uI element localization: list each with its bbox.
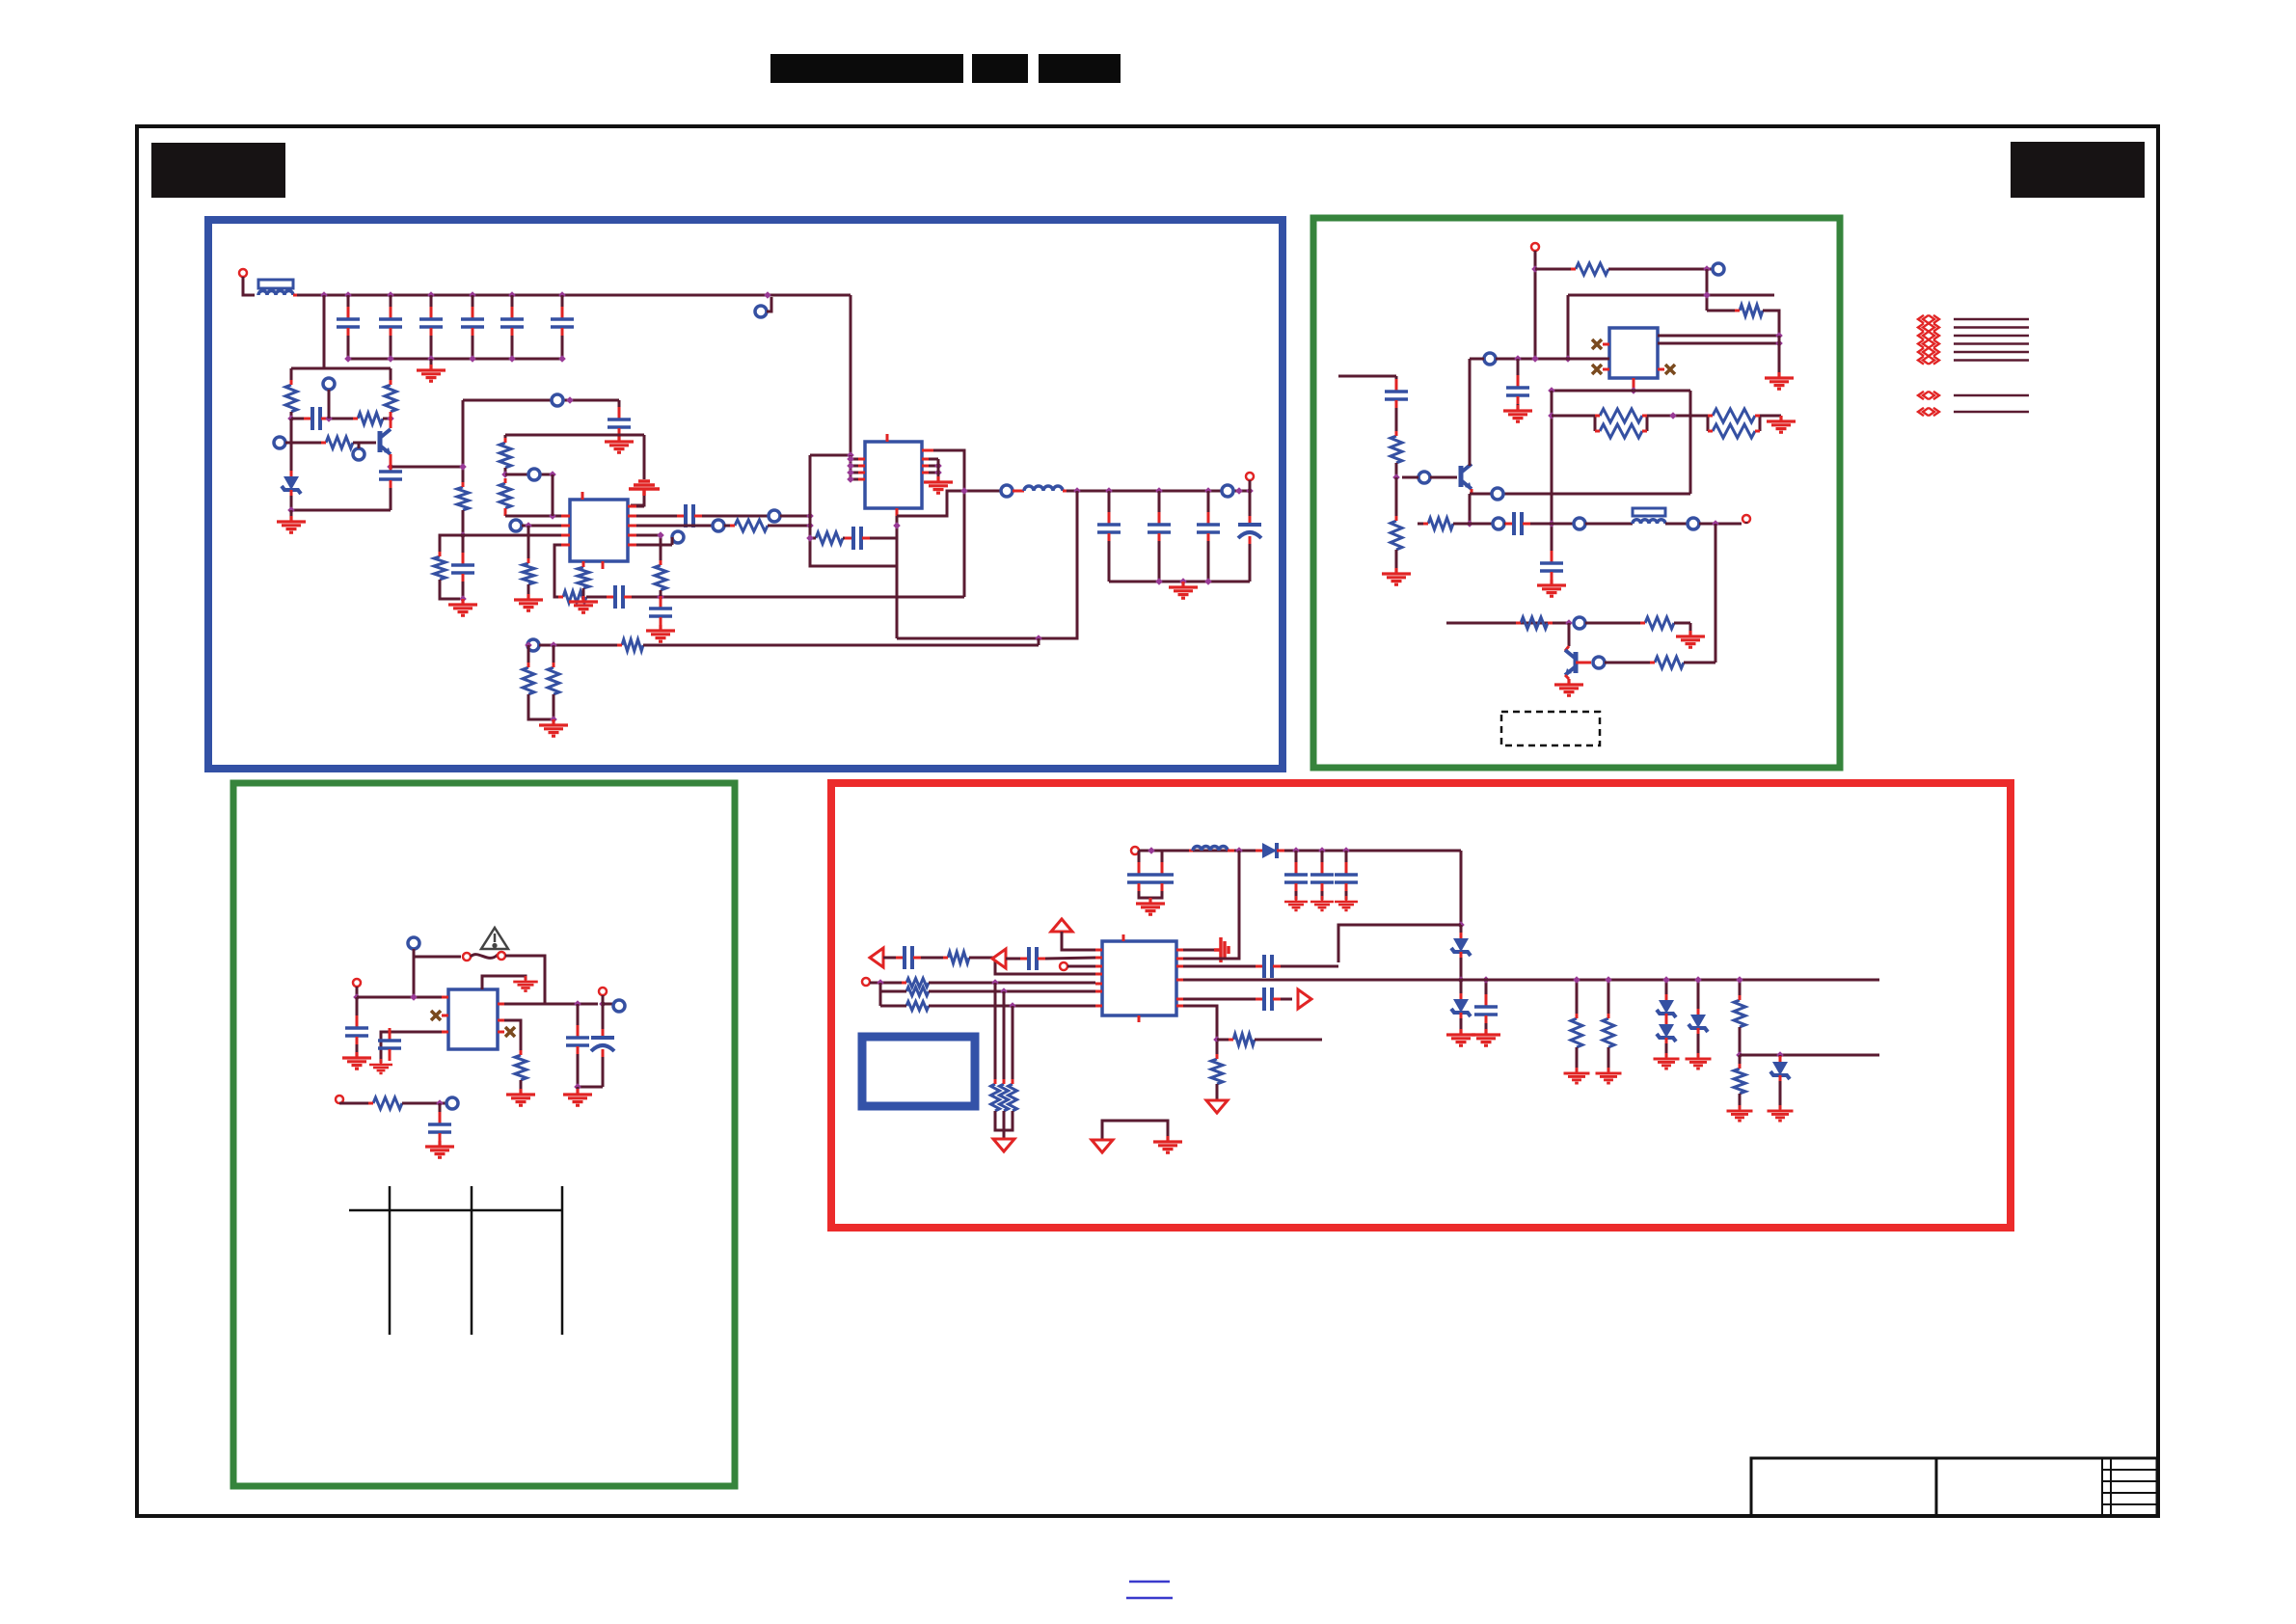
bus net wire 6 [1954, 359, 2029, 362]
resistor R30 [1645, 617, 1674, 629]
wire C34 to riser [1281, 965, 1338, 968]
wire C26 C27 tie [578, 1086, 603, 1089]
node G1f [1775, 339, 1783, 347]
capacitor C36 [896, 957, 904, 960]
capacitor C34 [1256, 965, 1263, 968]
node rail junction 6 [508, 291, 516, 299]
capacitor C37 [1020, 958, 1028, 961]
wire C14 to U2 riser [870, 537, 897, 540]
terminal TP3 [274, 437, 285, 448]
ground GND7 [569, 596, 598, 612]
node rail junction 4 [427, 291, 435, 299]
wire J7 to R33 [339, 1102, 373, 1105]
resistor R3 [385, 385, 396, 412]
node FB1a [657, 593, 664, 601]
wire R42 to PF6 [1216, 1084, 1219, 1099]
zener diode D3 [1453, 938, 1469, 952]
node top rail x1194 [1148, 847, 1155, 854]
node RB2 [1457, 976, 1465, 984]
resistor R36 [906, 988, 929, 996]
fuse F2 body [1633, 508, 1665, 516]
inductor L4 [1193, 847, 1228, 852]
node rail junction 5 [469, 291, 476, 299]
resistor R40 [1009, 1084, 1017, 1111]
ground GND3 [448, 599, 477, 615]
Q4 emitter stub [1565, 675, 1569, 679]
wire Q1E right [391, 466, 463, 469]
wire TP8 to loop [780, 515, 810, 518]
fuse F3 (wire link) [471, 955, 498, 959]
resistor R44 [1603, 1018, 1614, 1047]
warning triangle symbol [481, 928, 508, 949]
wire R43 top lead [1576, 980, 1579, 1018]
resistor R13 [735, 520, 768, 531]
resistor R32 [515, 1055, 527, 1080]
wire L3 right [1665, 523, 1688, 526]
ground GND17 [1676, 631, 1705, 647]
wire feedback FB1 [632, 596, 964, 599]
terminal TP2 [323, 378, 335, 390]
terminal TP11 [1001, 485, 1013, 497]
wire bias top [291, 367, 391, 370]
wire C12 to GND8 [660, 625, 662, 629]
inductor L1 [258, 291, 293, 296]
U5 top pin stub [1122, 934, 1125, 941]
ground GND34 [1596, 1068, 1622, 1083]
resistor R20 [1576, 263, 1608, 275]
resistor R24 [1600, 409, 1642, 422]
wire C4 top lead [472, 295, 474, 314]
U4 left pin 2 stub [442, 1015, 448, 1017]
U4 right pin 2 stub [498, 1019, 504, 1022]
resistor R38 [991, 1084, 1000, 1111]
wire J6 stub [602, 995, 605, 1004]
resistor R23 [1391, 521, 1402, 550]
resistor R6 [434, 556, 446, 580]
U5 left pin stub y1020 [1095, 983, 1102, 986]
capacitor C21 [1395, 379, 1398, 391]
ground GND10 [1169, 582, 1198, 598]
zener diode D6 [1659, 1024, 1674, 1038]
wire C16 top lead [1158, 491, 1161, 521]
zener diode D4 [1453, 999, 1469, 1013]
wire output sense return [897, 491, 1077, 638]
wire C31 top lead [1295, 851, 1298, 871]
resistor R33 [373, 1097, 402, 1109]
U3 bottom pin stub [1633, 378, 1635, 391]
title block divider 1 [1935, 1458, 1938, 1516]
node top rail x1285 [1235, 847, 1243, 854]
ground GND11 [539, 719, 568, 736]
wire R38 R40 bottom tie [995, 1111, 1013, 1130]
wire C10 to GND4 [618, 436, 621, 440]
title block outline [1751, 1458, 2157, 1516]
wire D6 to GND35 [1665, 1043, 1668, 1057]
capacitor C5 [511, 307, 514, 318]
capacitor C32 [1321, 862, 1324, 874]
wire R44 top lead [1607, 980, 1610, 1018]
capacitor C15 [1108, 512, 1111, 524]
capacitor C22 [1551, 551, 1553, 562]
wire D7 top lead [1697, 980, 1700, 1015]
wire U2 output [897, 491, 1001, 516]
Q3 emitter stub [1471, 489, 1473, 494]
resistor R27 [1713, 424, 1755, 438]
wire C3 top lead [430, 295, 433, 314]
wire TP15 to U3 [1496, 358, 1609, 361]
wire C1 top lead [347, 295, 350, 314]
transistor Q1 [380, 429, 391, 454]
wire TP9 to R13 [724, 525, 735, 528]
U5 left pin stub y1002 [1095, 965, 1102, 968]
wire R16 top lead [527, 651, 530, 667]
wire U3 out row b [1658, 342, 1779, 345]
wire C2 top lead [390, 295, 392, 314]
wire FB2b down [527, 645, 530, 652]
wire TP3 to R4 [285, 442, 326, 445]
node output rail x1285 [1235, 487, 1243, 495]
wire R43 bottom lead [1576, 1047, 1579, 1071]
ground GND31 (rotated) [1214, 937, 1229, 962]
wire RB9 down [1739, 1055, 1742, 1069]
terminal J10 [862, 978, 870, 986]
wire J3 down [1534, 251, 1537, 359]
L4 left stub [1189, 850, 1193, 853]
wire G1 left entry [1338, 375, 1396, 378]
capacitor C14 [845, 537, 852, 540]
ic U1 (PWM controller) [570, 500, 628, 561]
wire PF2 to C36 [883, 957, 901, 960]
no-connect X4 [431, 1011, 441, 1020]
resistor R42 [1211, 1059, 1223, 1084]
section box green (regulator top right) [1313, 218, 1840, 768]
wire rail tap down [323, 295, 326, 368]
U2 right pin stub y467 [922, 449, 935, 452]
node A2 [325, 415, 333, 422]
U2 right pin stub y476 [922, 458, 929, 461]
resistor pair R26/R27 loop [1707, 416, 1710, 431]
capacitor C11 [607, 596, 614, 599]
inductor L2 [1024, 486, 1063, 491]
wire C35 to GND30 [1485, 1023, 1488, 1033]
inductor L3 [1633, 520, 1665, 524]
wire U2 left pin y483 [851, 465, 865, 468]
U5 right pin stub y1036 [1176, 998, 1183, 1001]
zener diode D1 [284, 476, 299, 490]
node G1a [1531, 265, 1539, 273]
wire C2 bottom lead [390, 336, 392, 359]
node cap rail junction 1 [344, 355, 352, 363]
U5 right pin stub y1043 [1176, 1005, 1183, 1008]
wire top tie row [463, 399, 619, 402]
ground GND4 [605, 436, 634, 452]
node output rail x1202 [1155, 487, 1163, 495]
wire to C20 [1517, 359, 1520, 384]
wire V2 top row [505, 434, 644, 437]
wire TP10 stub [671, 537, 674, 545]
wire to U1 pin1 [505, 515, 561, 518]
wire Q3 emitter row [1470, 493, 1690, 496]
ground GND24 [425, 1141, 454, 1157]
wire C38 to PF5 [1281, 998, 1292, 1001]
node cap rail junction 4 [469, 355, 476, 363]
ground GND9 [924, 476, 953, 493]
node loop d [806, 534, 814, 542]
wire RB9 bus2 [1740, 1054, 1879, 1057]
ground GND30 [1472, 1029, 1500, 1045]
node sense tap [1035, 635, 1042, 642]
fuse F1 body [258, 280, 293, 288]
U5 right pin stub y985 [1176, 949, 1183, 952]
wire Q4 collector lead [1568, 623, 1571, 646]
resistor R7 [500, 443, 511, 468]
wire rail to U2 pins [850, 455, 852, 479]
node G1m [1548, 520, 1555, 528]
terminal TP19 [1574, 518, 1585, 529]
capacitor C20 [1517, 375, 1520, 387]
capacitor C31 [1295, 862, 1298, 874]
wire bus to D4 [1460, 980, 1463, 999]
no-connect X2 [1592, 365, 1602, 374]
wire to GND12 [1778, 336, 1781, 376]
wire R44 bottom lead [1607, 1047, 1610, 1071]
wire J5 row [357, 996, 448, 999]
bus connector arrow 5 [1918, 348, 1939, 356]
wire TP4 stub [358, 444, 361, 448]
resistor R26 [1713, 409, 1755, 422]
wire emitter riser [1689, 391, 1692, 494]
terminal TP17 [1492, 488, 1503, 500]
footer link underline 1 [1129, 1581, 1170, 1583]
wire pair2 out [1760, 415, 1781, 418]
node bias gnd [287, 506, 295, 514]
resistor R14 [816, 532, 843, 544]
resistor R46 [1734, 1069, 1745, 1094]
wire D5 to D6 [1665, 1019, 1668, 1024]
wire U2 loop left [810, 455, 897, 566]
node loop b [806, 522, 814, 529]
ground GND22 [506, 1089, 535, 1105]
wire TP21 to R30 [1585, 622, 1645, 625]
wire C17 top lead [1207, 491, 1210, 521]
ground GND35 [1654, 1053, 1680, 1069]
wire TP7 to U1 [522, 525, 561, 528]
wire R17 top lead [553, 645, 555, 667]
terminal TP23 [408, 937, 419, 949]
node V2a [501, 471, 509, 478]
U2 bottom pin stub [896, 508, 899, 516]
bus connector arrow 8 [1918, 408, 1939, 416]
wire C6 bottom lead [561, 336, 564, 359]
wire U2 gnd riser [937, 459, 940, 480]
wire R1 top lead [290, 368, 293, 385]
wire TP1 to rail [767, 297, 771, 311]
Q4 collector stub [1565, 646, 1569, 651]
wire C28 top lead [439, 1103, 442, 1121]
black label box top-left [151, 143, 285, 198]
ground GND8 [646, 625, 675, 641]
U4 right pin 1 stub [498, 1003, 504, 1006]
U5 right pin stub y1002 [1176, 965, 1183, 968]
node cap rail junction 2 [387, 355, 394, 363]
wire G1j down [1395, 477, 1398, 521]
node RB8 [1213, 1036, 1221, 1043]
wire R2 to R3 bottom [383, 418, 391, 420]
ground GND18 [1554, 679, 1583, 695]
wire R41 right [1255, 1039, 1322, 1042]
wire TP16 to Q3 base [1430, 476, 1457, 479]
resistor R29 [1521, 617, 1548, 629]
U5 right pin stub y1016 [1176, 979, 1183, 982]
U1 left pin y555 [561, 534, 570, 537]
wire C18 bottom lead [1249, 544, 1252, 582]
node V2c [549, 471, 556, 478]
wire R10 to C11 [586, 596, 611, 599]
wire to GND10 [1182, 582, 1185, 585]
U1 bottom pin 2 [602, 561, 605, 569]
wire C35 top lead [1485, 980, 1488, 1003]
terminal TP15 [1484, 353, 1496, 365]
resistor R17 [548, 667, 559, 694]
capacitor C38 [1256, 998, 1263, 1001]
wire C15 top lead [1108, 491, 1111, 521]
wire U4 pin to R32 [504, 1020, 521, 1055]
node B [387, 415, 394, 422]
wire C8 to bias bottom [390, 488, 392, 510]
resistor R34 [948, 952, 969, 963]
L4 right stub [1228, 850, 1234, 853]
capacitor C7 [304, 418, 311, 420]
bus net wire 7 [1954, 394, 2029, 397]
node cap rail junction 5 [508, 355, 516, 363]
U5 left pin stub y993 [1095, 957, 1102, 960]
wire RB1 to U5 [1338, 925, 1461, 962]
wire C18 top lead [1249, 491, 1252, 521]
ground GND21 [513, 976, 538, 991]
wire C9 down [462, 582, 465, 599]
U5 bottom pin stub [1138, 1015, 1141, 1022]
node RB5 [991, 979, 999, 987]
section box blue (power input) [208, 220, 1283, 769]
wire C29 top lead [1138, 851, 1141, 871]
terminal TP24 [613, 1000, 625, 1012]
wire V2 top lead [504, 435, 507, 443]
wire node A down [290, 419, 293, 476]
ground GND14 [1382, 568, 1411, 584]
zener diode D8 [1772, 1062, 1788, 1075]
node output rail x1117 [1073, 487, 1081, 495]
U1 left pin y535 [561, 515, 570, 518]
node U2 gnd a [934, 462, 942, 470]
wire V2a right [505, 474, 553, 476]
title block divider 3 [2110, 1458, 2112, 1516]
node top rail x1371 [1318, 847, 1326, 854]
node G1d [1564, 355, 1572, 363]
node RB3 [1482, 976, 1490, 984]
terminal TP16 [1418, 472, 1430, 483]
wire R7 to node V2a [504, 468, 507, 474]
wire TP19 to L3 [1585, 523, 1633, 526]
wire D7 to GND36 [1697, 1034, 1700, 1057]
wire C28 to GND24 [439, 1141, 442, 1145]
resistor R15 [622, 639, 643, 651]
node Q1E [387, 463, 394, 471]
resistor R22 [1391, 436, 1402, 463]
wire loop to U2 bottom [896, 508, 899, 566]
wire R20 to TP14 [1608, 268, 1713, 271]
wire R46 to GND37 [1739, 1094, 1742, 1109]
wire U4 top hook [482, 976, 526, 989]
resistor R31 [1655, 657, 1684, 668]
wire U1 row0 [636, 505, 644, 508]
wire TP22 to R31 [1605, 662, 1655, 664]
section box red (protection) [831, 783, 2011, 1228]
wire R36 to U5 [929, 990, 1095, 993]
wire cap bank ground rail [348, 358, 562, 361]
capacitor C6 [561, 307, 564, 318]
wire J4 stub [1745, 522, 1748, 524]
wire D3 to bus [1460, 958, 1463, 980]
node loop a [806, 512, 814, 520]
wire to GND1 [430, 359, 433, 368]
resistor R4 [326, 437, 353, 448]
node bus x1668 [1605, 976, 1612, 984]
outer sheet frame [137, 126, 2158, 1516]
title block row line 4 [2102, 1503, 2157, 1505]
wire U1b down [527, 526, 530, 563]
node R12 top [657, 531, 664, 539]
node rail junction 2 [344, 291, 352, 299]
wire C21 to R22 [1395, 408, 1398, 436]
wire feedback FB2 [643, 644, 1039, 647]
wire R28 right [1453, 523, 1493, 526]
wire U1 row4 [636, 544, 672, 547]
D2 anode stub [1256, 850, 1262, 853]
node U2 gnd b [934, 469, 942, 476]
ground GND29 [1446, 1029, 1475, 1045]
terminal TP12 [1222, 485, 1233, 497]
node rail junction 7 [558, 291, 566, 299]
wire R37 to U5 [929, 1005, 1095, 1008]
wire U3 out row a [1658, 335, 1779, 338]
resistor R41 [1233, 1034, 1255, 1045]
wire Q4 base stub [1576, 662, 1591, 664]
power flag PF4 (down) [993, 1139, 1014, 1151]
wire row stub left [1418, 523, 1428, 526]
node top rail x1344 [1292, 847, 1300, 854]
wire RB1 down [1460, 925, 1463, 938]
U4 left pin 1 stub [442, 996, 448, 999]
wire R30 right [1674, 622, 1690, 625]
wire U1 to R12 [636, 535, 661, 565]
L2 left stub [1013, 490, 1024, 493]
wire RB4 down [879, 983, 882, 1006]
resistor R1 [285, 385, 297, 412]
wire D8 to GND38 [1779, 1081, 1782, 1109]
wire sense to loop bottom [896, 566, 899, 638]
node RB9 [1736, 1051, 1743, 1059]
node V1b [459, 531, 467, 539]
node G2b [410, 993, 418, 1001]
wire C1 bottom lead [347, 336, 350, 359]
resistor R16 [523, 667, 534, 694]
bus net wire 2 [1954, 326, 2029, 329]
wire R39 to PF4 [1003, 1111, 1006, 1138]
wire pair1 to pair2 [1647, 415, 1708, 418]
wire R3 top lead [390, 368, 392, 385]
terminal TP1 [755, 306, 767, 317]
U1 right pin y565 [628, 544, 636, 547]
